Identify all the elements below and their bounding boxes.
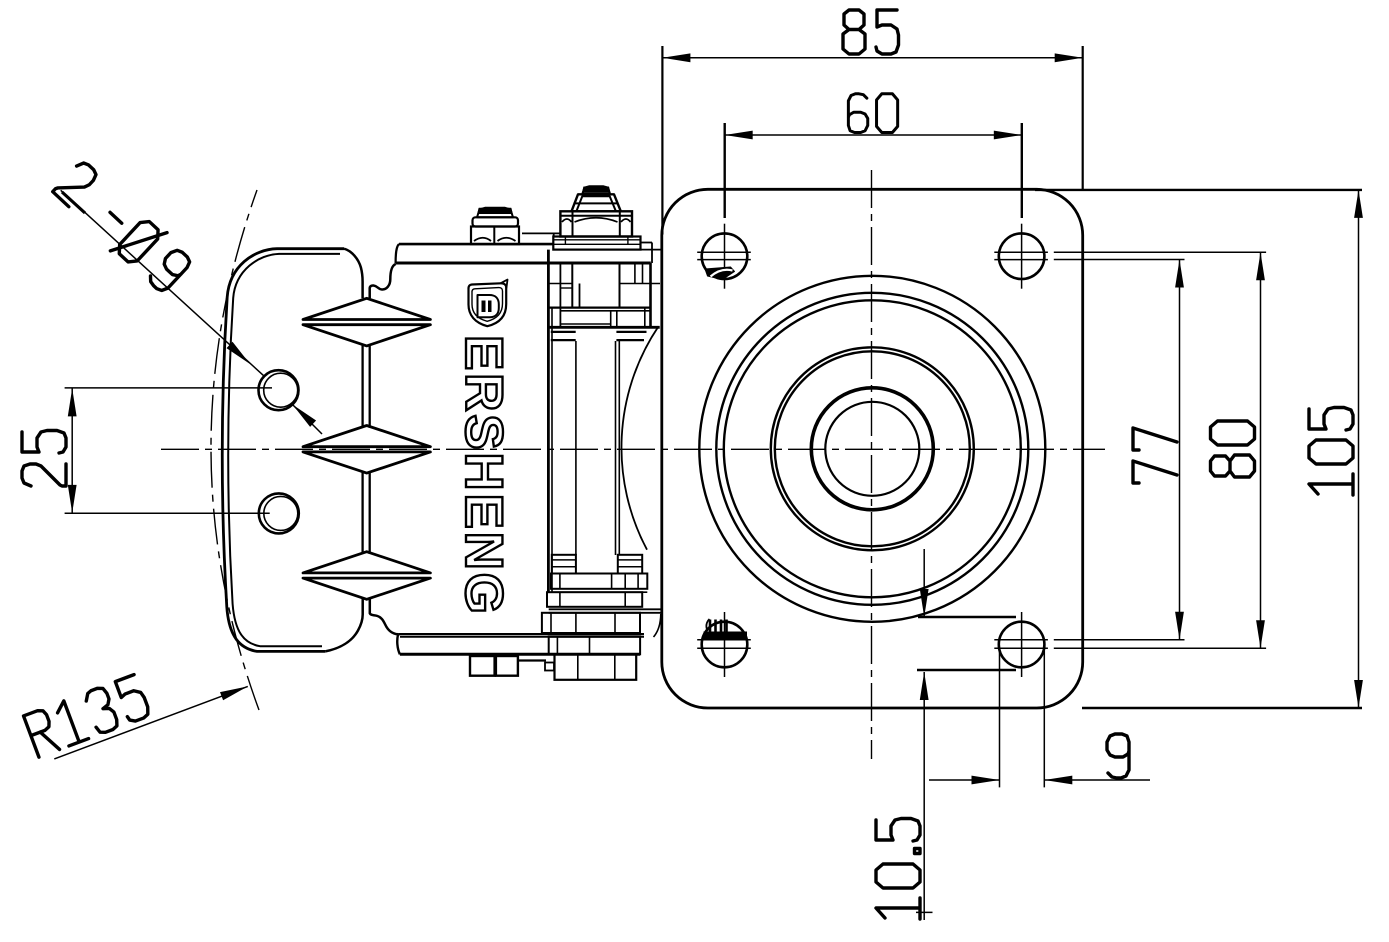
svg-text:ERSHENG: ERSHENG — [454, 335, 513, 617]
